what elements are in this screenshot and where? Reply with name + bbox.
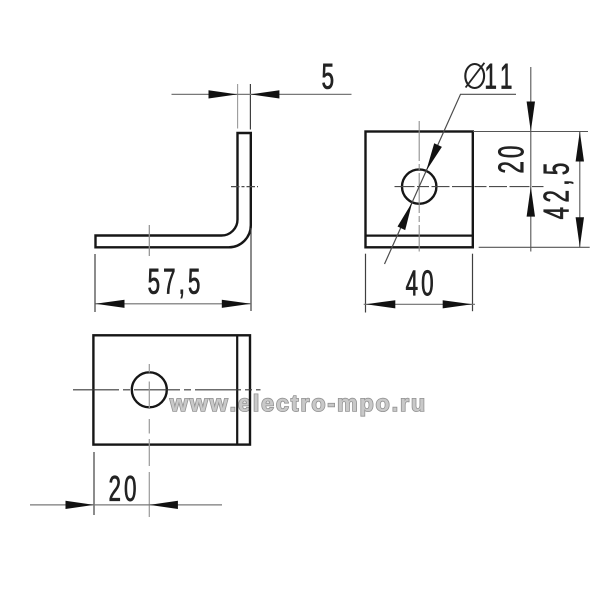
dim 40: text [406,270,433,296]
dim 20: text [110,476,136,502]
top extension line (20 and 42,5) [473,131,588,133]
dim 40: extension lines [365,254,367,313]
watermark www.electro-mpo.ru [170,394,424,416]
dim 20 (bottom): extension line [93,452,95,515]
dim 40: arrows [366,300,396,308]
dim 20 (vertical) line [530,67,532,252]
dim 5: dimension line [172,93,352,95]
dim 5: arrows [209,90,238,98]
dim 57,5: text [149,269,200,298]
horizontal centerline [395,186,544,188]
dim 57,5: arrows [95,300,124,308]
plate outline [366,132,473,248]
bottom extension line (42,5) [479,246,590,248]
dim 20: arrows [66,501,95,509]
hole circle [402,169,436,203]
dim 40: dimension line [364,303,475,305]
leader arrow lower [398,202,413,230]
hole circle [132,372,167,407]
dim 20: dimension line [30,504,222,506]
dim 5: extension lines [237,84,239,129]
dim 5: text [323,64,334,89]
dim 57,5: extension lines [94,254,96,312]
dim 42,5 text (rotated) [543,164,573,219]
dim 57,5: dimension line [95,303,251,305]
text dia 11 [465,63,511,89]
vertical centerline [148,364,150,517]
leader arrow upper [426,143,442,171]
leader line for hole dia [385,94,517,264]
horizontal centerline [73,389,261,391]
L-bracket profile outline [96,133,251,247]
bend line [236,335,238,444]
dim 20 text (rotated) [498,147,524,173]
vertical centerline [418,121,420,252]
tick: hole y projection on upright [231,186,258,188]
tick: hole x projection on leg [148,225,150,256]
dim 20 arrows [527,102,535,132]
plate rectangle [93,335,250,444]
dim 42,5 line [579,132,581,248]
dim 42,5 arrows [576,132,584,162]
bend (flange) line [366,235,473,237]
